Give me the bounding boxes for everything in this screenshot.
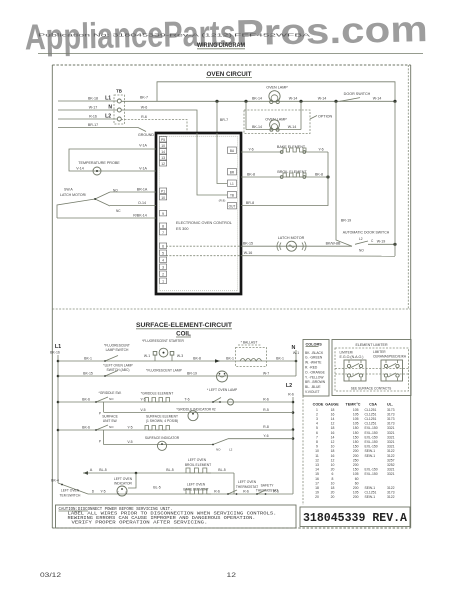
svg-text:3: 3 <box>162 265 164 269</box>
temperature probe loop <box>69 144 156 175</box>
svg-text:18: 18 <box>331 408 335 412</box>
wire W-6 into control <box>121 105 197 133</box>
svg-text:Y-5: Y-5 <box>100 489 105 493</box>
svg-text:LATCH MOTOR/: LATCH MOTOR/ <box>60 193 86 197</box>
svg-text:Y-5: Y-5 <box>127 425 132 429</box>
svg-text:FEF452WFBA: FEF452WFBA <box>234 33 310 38</box>
node BR-7 junction <box>215 100 228 133</box>
svg-text:3321: 3321 <box>387 431 395 435</box>
svg-text:P1: P1 <box>161 189 165 193</box>
EOC right pin boxes <box>219 147 237 209</box>
svg-text:3173: 3173 <box>387 417 395 421</box>
svg-text:R-6: R-6 <box>243 489 249 493</box>
svg-text:3173: 3173 <box>387 422 395 426</box>
svg-text:CL1251: CL1251 <box>365 491 377 495</box>
svg-text:5: 5 <box>162 251 164 255</box>
svg-text:BR. -BROWN: BR. -BROWN <box>305 380 326 384</box>
fluorescent lamp <box>146 368 227 382</box>
automatic door switch <box>336 101 397 252</box>
svg-text:4: 4 <box>162 258 164 262</box>
svg-text:LEFT OVEN: LEFT OVEN <box>114 477 133 481</box>
terminal block TB <box>114 89 125 125</box>
svg-text:12: 12 <box>161 162 165 166</box>
svg-text:CSA: CSA <box>369 402 377 406</box>
svg-text:L2: L2 <box>286 383 292 389</box>
svg-text:W-16: W-16 <box>244 251 253 255</box>
svg-text:NC: NC <box>116 209 121 213</box>
svg-text:BK. -BLACK: BK. -BLACK <box>305 351 324 355</box>
svg-text:V-14: V-14 <box>76 166 83 170</box>
svg-text:3: 3 <box>316 417 318 421</box>
svg-text:12: 12 <box>315 458 319 462</box>
wire R-6 dashed into control <box>121 115 187 133</box>
node junction x301 <box>299 97 326 130</box>
ballast <box>236 340 284 366</box>
svg-text:W-3: W-3 <box>177 354 183 358</box>
svg-text:12: 12 <box>331 422 335 426</box>
svg-text:2: 2 <box>316 412 318 416</box>
svg-text:105: 105 <box>353 417 359 421</box>
svg-text:14: 14 <box>161 150 165 154</box>
svg-text:R. -RED: R. -RED <box>305 366 318 370</box>
svg-text:18: 18 <box>331 426 335 430</box>
svg-text:SURFACE-ELEMENT-CIRCUIT: SURFACE-ELEMENT-CIRCUIT <box>136 322 232 329</box>
svg-text:105: 105 <box>353 422 359 426</box>
svg-text:LIMITER: LIMITER <box>373 350 386 354</box>
svg-text:P5: P5 <box>161 138 165 142</box>
svg-text:SAFETY: SAFETY <box>261 484 275 488</box>
svg-text:12: 12 <box>331 458 335 462</box>
svg-text:9: 9 <box>162 212 164 216</box>
svg-text:BK-15: BK-15 <box>243 242 253 246</box>
caution box <box>56 505 297 528</box>
outer diagram border <box>52 65 410 528</box>
node L1 <box>105 96 111 102</box>
svg-text:2: 2 <box>162 272 164 276</box>
griddle switch row <box>58 391 293 416</box>
left oven thermostat <box>227 480 258 495</box>
svg-text:200: 200 <box>353 449 359 453</box>
left oven temp switch <box>51 478 88 497</box>
svg-text:6: 6 <box>162 244 164 248</box>
node N <box>108 105 112 111</box>
svg-text:3173: 3173 <box>387 491 395 495</box>
griddle element <box>140 391 189 402</box>
left oven broil element row <box>83 458 234 494</box>
svg-text:13: 13 <box>315 463 319 467</box>
svg-text:LATCH MOTOR: LATCH MOTOR <box>278 236 305 240</box>
svg-text:O-14: O-14 <box>138 201 146 205</box>
surface indicator row <box>104 434 294 452</box>
latch motor switch <box>57 188 121 219</box>
door switch <box>334 92 396 103</box>
svg-text:3122: 3122 <box>387 454 395 458</box>
svg-text:BK-1: BK-1 <box>226 356 234 360</box>
wire N bus <box>295 350 297 376</box>
svg-text:250: 250 <box>353 458 359 462</box>
svg-text:INDICATOR: INDICATOR <box>114 482 132 486</box>
svg-text:Y-6: Y-6 <box>248 147 253 151</box>
svg-text:3321: 3321 <box>387 426 395 430</box>
svg-text:SEW-1: SEW-1 <box>365 449 376 453</box>
svg-text:(R.8): (R.8) <box>219 199 226 203</box>
svg-text:6: 6 <box>332 472 334 476</box>
svg-text:4: 4 <box>316 422 318 426</box>
wire W-16 <box>166 251 395 256</box>
bake element <box>241 145 328 153</box>
svg-text:EXL-150: EXL-150 <box>365 468 378 472</box>
wire O-14 <box>110 201 156 206</box>
svg-text:BK-14: BK-14 <box>252 125 262 129</box>
svg-text:*FLUORESCENT: *FLUORESCENT <box>104 344 130 348</box>
node N surface <box>292 345 300 363</box>
svg-text:6: 6 <box>316 431 318 435</box>
svg-text:TEMPERATURE PROBE: TEMPERATURE PROBE <box>78 161 120 165</box>
svg-text:3321: 3321 <box>387 472 395 476</box>
svg-text:BR-8: BR-8 <box>246 201 254 205</box>
left oven lamp <box>207 388 269 405</box>
svg-text:L1: L1 <box>230 182 234 186</box>
svg-text:BK-8: BK-8 <box>315 172 323 176</box>
svg-text:BL-5: BL-5 <box>218 468 225 472</box>
svg-text:10: 10 <box>331 463 335 467</box>
svg-text:* BALLAST: * BALLAST <box>241 340 258 344</box>
svg-text:3122: 3122 <box>387 449 395 453</box>
svg-text:BR-1A: BR-1A <box>137 187 148 191</box>
svg-text:P: P <box>99 412 101 416</box>
svg-text:BK-14: BK-14 <box>252 97 262 101</box>
svg-text:8: 8 <box>332 477 334 481</box>
svg-text:UNIT SW.: UNIT SW. <box>103 419 118 423</box>
EOC internal wire to L1 pin <box>217 133 227 184</box>
svg-text:Publication No: 318045339-Rev-: Publication No: 318045339-Rev-A (1212) <box>38 33 233 38</box>
svg-text:BR-7: BR-7 <box>220 118 228 122</box>
svg-text:SW.A: SW.A <box>64 188 73 192</box>
svg-text:8: 8 <box>316 440 318 444</box>
svg-text:BK-6: BK-6 <box>82 425 90 429</box>
EOC internal wire to TB pin <box>197 133 227 195</box>
svg-text:1: 1 <box>162 279 164 283</box>
fluorescent lamp switch row <box>58 344 296 362</box>
svg-text:LIMITER/: LIMITER/ <box>340 351 354 355</box>
publication number header text <box>38 33 310 38</box>
svg-text:BK-18: BK-18 <box>88 96 98 100</box>
svg-text:OPTION: OPTION <box>318 115 332 119</box>
svg-text:3321: 3321 <box>387 440 395 444</box>
svg-text:*GRIDDLE SW.: *GRIDDLE SW. <box>99 391 122 395</box>
svg-text:COLORS: COLORS <box>306 342 323 346</box>
svg-text:150: 150 <box>353 431 359 435</box>
svg-text:W. -WHITE: W. -WHITE <box>305 361 322 365</box>
svg-text:V-1A: V-1A <box>139 144 147 148</box>
svg-text:EXL-150: EXL-150 <box>365 445 378 449</box>
svg-text:3122: 3122 <box>387 486 395 490</box>
svg-text:10: 10 <box>331 481 335 485</box>
svg-text:OVEN LAMP: OVEN LAMP <box>265 118 287 122</box>
svg-text:LEFT OVEN: LEFT OVEN <box>188 458 207 462</box>
svg-text:BK/W-8B: BK/W-8B <box>326 242 341 246</box>
EOC left pin header P5 group <box>160 137 167 284</box>
svg-text:W-6: W-6 <box>141 105 148 109</box>
svg-text:60: 60 <box>355 477 359 481</box>
svg-text:BAKE ELEMENT: BAKE ELEMENT <box>277 145 306 149</box>
svg-text:11: 11 <box>315 454 319 458</box>
svg-text:150: 150 <box>353 435 359 439</box>
svg-text:SEE SURFACE CONTACTS: SEE SURFACE CONTACTS <box>351 387 392 391</box>
svg-text:LEFT OVEN: LEFT OVEN <box>61 488 80 492</box>
svg-text:L2: L2 <box>229 448 233 452</box>
svg-text:15: 15 <box>315 472 319 476</box>
svg-text:150: 150 <box>353 440 359 444</box>
svg-text:3321: 3321 <box>387 445 395 449</box>
svg-text:BL-5: BL-5 <box>153 486 160 490</box>
svg-text:BL. -BLUE: BL. -BLUE <box>305 385 321 389</box>
svg-text:CODE: CODE <box>313 402 324 406</box>
label OVEN CIRCUIT <box>206 71 252 78</box>
svg-text:16: 16 <box>331 412 335 416</box>
svg-text:16: 16 <box>331 454 335 458</box>
svg-text:20: 20 <box>331 495 335 499</box>
surface element <box>145 415 269 431</box>
svg-text:L2: L2 <box>359 237 363 241</box>
svg-text:3321: 3321 <box>387 435 395 439</box>
svg-text:G. -GREEN: G. -GREEN <box>305 356 323 360</box>
svg-text:12: 12 <box>331 440 335 444</box>
title WIRING DIAGRAM <box>197 42 245 49</box>
svg-text:NO: NO <box>216 448 221 452</box>
svg-text:105: 105 <box>353 491 359 495</box>
svg-text:T-6: T-6 <box>184 397 189 401</box>
electronic oven control U1 <box>156 133 241 294</box>
svg-text:R-6: R-6 <box>273 489 279 493</box>
svg-text:R-6: R-6 <box>214 489 220 493</box>
svg-text:10: 10 <box>315 449 319 453</box>
svg-text:GAUGE: GAUGE <box>325 402 339 406</box>
svg-text:16: 16 <box>331 431 335 435</box>
wire upper L1 run <box>157 82 395 102</box>
svg-text:*GRIDDLE ELEMENT: *GRIDDLE ELEMENT <box>141 391 173 395</box>
svg-text:BK-15: BK-15 <box>83 371 93 375</box>
svg-text:18: 18 <box>315 486 319 490</box>
svg-text:CL1251: CL1251 <box>365 422 377 426</box>
svg-text:10: 10 <box>161 144 165 148</box>
svg-text:N: N <box>292 345 296 351</box>
svg-text:L1: L1 <box>55 344 61 350</box>
svg-text:W-14: W-14 <box>289 97 298 101</box>
svg-text:R-16: R-16 <box>89 114 97 118</box>
svg-text:BK-1: BK-1 <box>84 356 92 360</box>
latch motor <box>166 236 352 251</box>
option oven lamp dashed box <box>244 110 310 134</box>
svg-text:105: 105 <box>353 408 359 412</box>
svg-text:12: 12 <box>227 572 237 579</box>
wire R-16 to TB L2 <box>58 114 117 119</box>
svg-text:GROUND: GROUND <box>138 133 154 137</box>
broil element <box>241 170 330 178</box>
svg-text:W-14: W-14 <box>373 97 382 101</box>
svg-text:R-6: R-6 <box>141 115 147 119</box>
svg-text:BK-1: BK-1 <box>276 356 284 360</box>
svg-text:SEW-1: SEW-1 <box>365 495 376 499</box>
svg-text:LEFT OVEN: LEFT OVEN <box>187 483 206 487</box>
svg-text:V-5: V-5 <box>127 440 132 444</box>
svg-text:18: 18 <box>331 449 335 453</box>
svg-text:W-17: W-17 <box>89 105 98 109</box>
svg-text:BR: BR <box>230 170 235 174</box>
svg-text:ES 300: ES 300 <box>176 227 188 231</box>
svg-text:NO: NO <box>109 397 114 401</box>
svg-text:Y. -YELLOW: Y. -YELLOW <box>305 375 324 379</box>
wire element return <box>241 152 328 206</box>
svg-text:20: 20 <box>331 468 335 472</box>
svg-text:3321: 3321 <box>387 468 395 472</box>
svg-text:200: 200 <box>353 463 359 467</box>
svg-text:P: P <box>99 440 101 444</box>
svg-text:TB: TB <box>230 193 234 197</box>
svg-text:03/12: 03/12 <box>40 572 61 579</box>
wire BK-8 arrow <box>193 356 234 362</box>
svg-text:BK-8: BK-8 <box>193 356 201 360</box>
svg-text:OUT: OUT <box>229 204 236 208</box>
watermark AppliancePartsPros.com <box>24 8 428 57</box>
svg-text:NO: NO <box>109 425 114 429</box>
svg-text:10: 10 <box>161 196 165 200</box>
svg-text:CL1251: CL1251 <box>365 417 377 421</box>
svg-text:W-19: W-19 <box>377 240 386 244</box>
svg-text:LAMP SWITCH: LAMP SWITCH <box>106 348 129 352</box>
wire gauge table left edge <box>302 396 304 505</box>
svg-text:*GRIDDLE INDICATOR #2: *GRIDDLE INDICATOR #2 <box>176 408 215 412</box>
svg-text:BK-6: BK-6 <box>82 397 90 401</box>
svg-text:3173: 3173 <box>387 412 395 416</box>
svg-text:*LEFT OVEN LAMP: *LEFT OVEN LAMP <box>103 364 133 368</box>
svg-text:UL.: UL. <box>387 402 393 406</box>
node junction x248 <box>244 100 247 130</box>
svg-text:1: 1 <box>316 408 318 412</box>
top rule <box>38 53 423 55</box>
oven lamp <box>252 86 297 104</box>
svg-text:VERIFY PROPER OPERATION AFTER: VERIFY PROPER OPERATION AFTER SERVICING. <box>72 520 208 526</box>
svg-text:3173: 3173 <box>387 408 395 412</box>
svg-text:SEW-1: SEW-1 <box>365 454 376 458</box>
svg-text:18: 18 <box>331 486 335 490</box>
svg-text:OVEN LAMP: OVEN LAMP <box>266 86 288 90</box>
wire R/BK-14 <box>57 213 156 218</box>
svg-text:BK-16: BK-16 <box>50 351 60 355</box>
svg-text:Y-6: Y-6 <box>263 434 268 438</box>
wire gauge table <box>313 402 395 499</box>
svg-text:W-14: W-14 <box>318 97 327 101</box>
left oven indicator <box>114 473 161 496</box>
wire BK-7 L1 feed <box>121 96 395 102</box>
svg-text:R/BK-14: R/BK-14 <box>133 213 147 217</box>
svg-text:THERMOSTAT: THERMOSTAT <box>236 485 258 489</box>
svg-text:Y-6: Y-6 <box>318 147 323 151</box>
svg-text:W-1: W-1 <box>144 354 150 358</box>
svg-text:SURFACE INDICATOR: SURFACE INDICATOR <box>145 436 180 440</box>
svg-text:R-8: R-8 <box>263 425 269 429</box>
svg-text:AUTOMATIC DOOR SWITCH: AUTOMATIC DOOR SWITCH <box>343 231 390 235</box>
svg-text:14: 14 <box>331 417 335 421</box>
wire BR-1A <box>110 187 156 192</box>
node L1 surface <box>50 344 61 355</box>
option label <box>310 115 332 120</box>
svg-text:*FLUORESCENT STARTER: *FLUORESCENT STARTER <box>142 339 184 343</box>
svg-text:TEMP.°C: TEMP.°C <box>346 402 361 406</box>
svg-text:* LEFT OVEN LAMP: * LEFT OVEN LAMP <box>207 388 238 392</box>
svg-text:17: 17 <box>315 481 319 485</box>
svg-text:EXL-150: EXL-150 <box>365 440 378 444</box>
section divider <box>52 308 410 310</box>
svg-text:60: 60 <box>355 481 359 485</box>
svg-text:5: 5 <box>316 426 318 430</box>
svg-text:20: 20 <box>315 495 319 499</box>
fluorescent starter <box>142 339 184 361</box>
svg-text:7: 7 <box>162 231 164 235</box>
svg-text:V.VIOLET: V.VIOLET <box>305 390 320 394</box>
wire L1 bus <box>57 355 60 483</box>
svg-text:ELEMENT LIMITER: ELEMENT LIMITER <box>355 343 387 347</box>
svg-text:LEFT OVEN: LEFT OVEN <box>238 480 257 484</box>
svg-text:SEW-1: SEW-1 <box>365 486 376 490</box>
svg-text:3122: 3122 <box>387 495 395 499</box>
svg-text:WIRING DIAGRAM: WIRING DIAGRAM <box>197 42 245 49</box>
svg-text:BR-19: BR-19 <box>187 371 197 375</box>
svg-text:318045339 REV.A: 318045339 REV.A <box>303 512 407 525</box>
wire BK-18 to TB L1 <box>58 96 117 101</box>
svg-text:W-7: W-7 <box>263 371 269 375</box>
svg-text:R-5: R-5 <box>263 408 269 412</box>
part number box 318045339 REV.A <box>300 507 410 527</box>
svg-text:TEM SWITCH: TEM SWITCH <box>60 494 81 498</box>
element limiter box <box>332 340 411 396</box>
colors legend box <box>303 340 329 397</box>
safety thermostat <box>256 484 279 495</box>
svg-text:TB: TB <box>116 89 122 94</box>
ground <box>138 133 154 137</box>
svg-text:V-5: V-5 <box>140 408 145 412</box>
svg-text:10: 10 <box>331 445 335 449</box>
footer page 12 <box>227 572 237 579</box>
svg-text:EXL-150: EXL-150 <box>365 472 378 476</box>
svg-text:BK-4: BK-4 <box>51 478 59 482</box>
svg-text:16: 16 <box>315 477 319 481</box>
svg-text:200: 200 <box>353 486 359 490</box>
svg-text:14: 14 <box>331 435 335 439</box>
svg-text:(1 SHOWN, 4 POS/B): (1 SHOWN, 4 POS/B) <box>146 419 178 423</box>
wire W-17 to TB N <box>58 105 117 110</box>
svg-text:EXL-150: EXL-150 <box>365 426 378 430</box>
svg-text:EXL-150: EXL-150 <box>365 435 378 439</box>
svg-text:9: 9 <box>316 445 318 449</box>
svg-text:BL-5: BL-5 <box>99 468 106 472</box>
svg-text:200: 200 <box>353 495 359 499</box>
svg-text:BK-8: BK-8 <box>247 172 255 176</box>
svg-text:20: 20 <box>331 491 335 495</box>
svg-text:8: 8 <box>162 224 164 228</box>
svg-text:150: 150 <box>353 426 359 430</box>
svg-text:105: 105 <box>353 472 359 476</box>
svg-text:A: A <box>90 468 93 472</box>
svg-text:CERAMASPEED/EIKA: CERAMASPEED/EIKA <box>373 355 407 359</box>
svg-text:200: 200 <box>353 454 359 458</box>
svg-text:150: 150 <box>353 468 359 472</box>
svg-text:R-6: R-6 <box>288 392 294 396</box>
svg-text:150: 150 <box>353 445 359 449</box>
title SURFACE-ELEMENT-CIRCUIT <box>136 322 232 337</box>
svg-text:COIL: COIL <box>176 330 191 337</box>
surface unit switch row <box>58 415 293 445</box>
